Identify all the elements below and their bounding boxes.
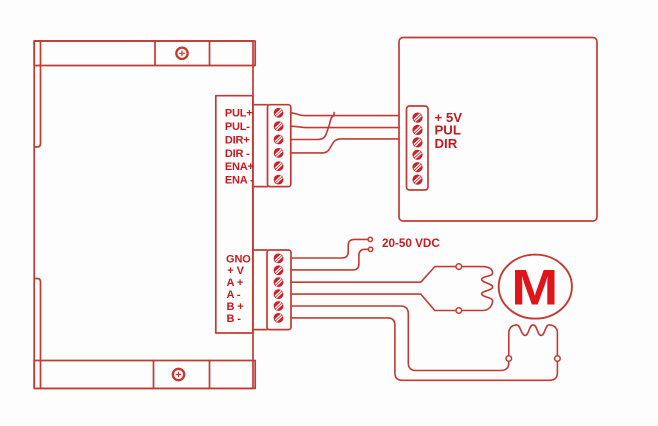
svg-text:ENA+: ENA+ — [225, 161, 254, 173]
winding A outline with leads A+ / A- — [291, 267, 493, 311]
bottom flange — [34, 361, 255, 389]
upper labels — [225, 108, 254, 187]
wire +V to supply — [291, 249, 368, 270]
top flange — [34, 41, 255, 66]
upper terminal block shell — [253, 104, 268, 106]
wire PUL- to PUL — [291, 126, 400, 127]
controller box U1 — [399, 38, 597, 222]
svg-text:+ V: + V — [227, 265, 244, 277]
node: supply GNO pin — [368, 237, 372, 241]
lower labels — [226, 253, 251, 325]
wire DIR- to DIR — [291, 139, 400, 153]
lower terminal block shell — [253, 249, 267, 251]
wire DIR+ joining PUL+ wire — [291, 113, 335, 140]
svg-text:ENA -: ENA - — [225, 175, 254, 187]
bottom flange screw — [173, 369, 184, 380]
DIN clip strip top — [34, 41, 40, 147]
svg-text:B +: B + — [227, 301, 244, 313]
wire PUL+ to +5V — [291, 113, 400, 116]
controller labels — [435, 110, 463, 151]
motor body — [499, 255, 572, 319]
controller terminal strip — [407, 106, 429, 190]
svg-text:B -: B - — [227, 313, 242, 325]
winding B outline with leads B+ / B- — [291, 306, 557, 380]
svg-text:DIR+: DIR+ — [225, 134, 250, 146]
svg-text:20-50 VDC: 20-50 VDC — [382, 237, 440, 250]
svg-text:GNO: GNO — [226, 253, 251, 265]
node: supply +V pin — [368, 247, 372, 251]
svg-text:DIR -: DIR - — [225, 148, 250, 160]
svg-text:DIR: DIR — [435, 136, 458, 151]
node: winding A lower pin — [456, 308, 462, 314]
wire GNO to supply — [291, 239, 368, 258]
svg-text:PUL+: PUL+ — [225, 108, 253, 120]
controller strip screws — [412, 113, 422, 185]
svg-text:A -: A - — [227, 289, 241, 301]
node: winding A upper pin — [456, 264, 462, 270]
node: winding B right pin — [555, 356, 561, 362]
svg-text:A +: A + — [227, 277, 244, 289]
svg-text:PUL-: PUL- — [225, 121, 250, 133]
top flange screw — [176, 48, 187, 59]
node: winding B left pin — [506, 356, 512, 362]
label panel — [216, 96, 253, 333]
upper terminal screws PUL+ PUL- DIR+ DIR- ENA+ ENA- — [274, 108, 284, 185]
lower terminal screws GNO +V A+ A- B+ B- — [274, 254, 284, 323]
DIN clip strip bottom — [34, 279, 40, 389]
driver body — [34, 41, 253, 388]
svg-text:M: M — [511, 261, 558, 316]
